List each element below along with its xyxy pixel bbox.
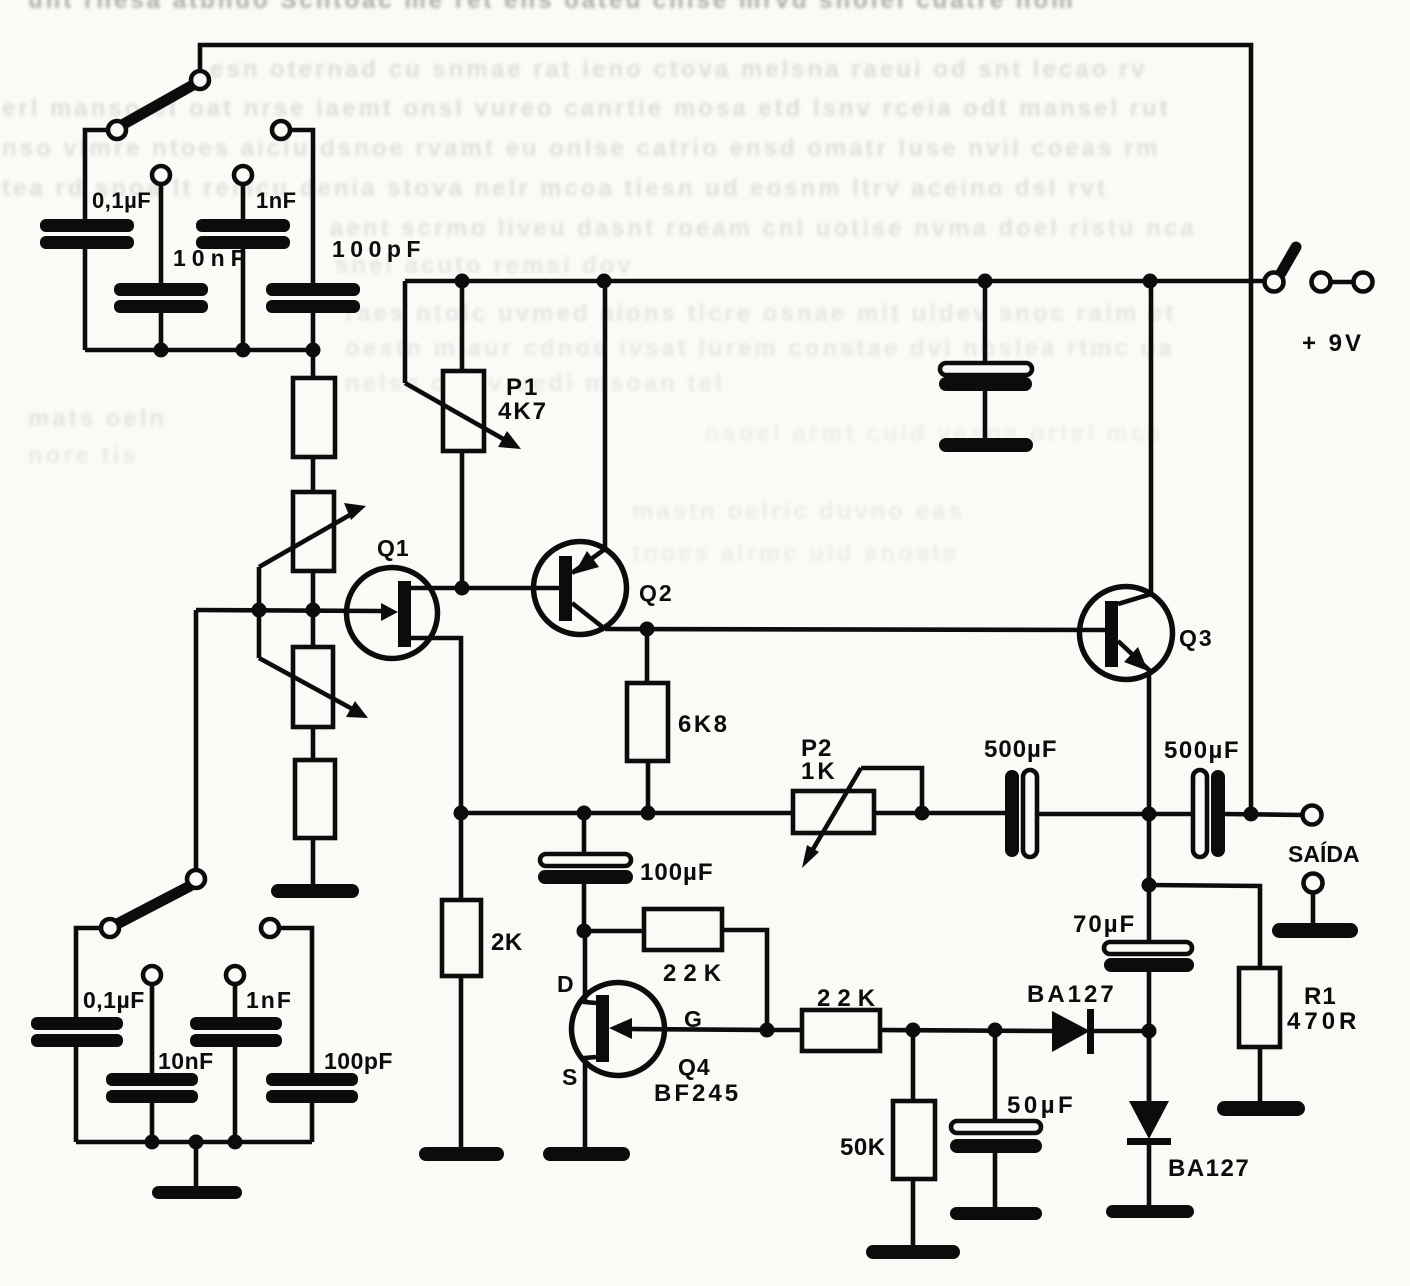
node P1 top on +9V bus <box>455 274 470 289</box>
capacitor 70uF electrolytic <box>1104 814 1194 1101</box>
capacitor 100pF (bottom bank) <box>266 1073 358 1103</box>
svg-text:2K: 2K <box>491 929 523 956</box>
wire 100pF to bus <box>311 313 316 350</box>
label BF245 <box>654 1080 741 1107</box>
svg-text:Q3: Q3 <box>1179 625 1214 651</box>
wire bottom bank bus <box>76 1140 312 1145</box>
capacitor 10nF (top bank) <box>114 283 208 313</box>
resistor R1 470R <box>1149 885 1280 1101</box>
wire 10nF to bus <box>159 313 164 350</box>
label 50uF <box>1007 1092 1076 1119</box>
ground (50K) <box>866 1245 960 1259</box>
label 0,1uF top <box>92 188 151 213</box>
label BA127 shunt <box>1168 1155 1250 1182</box>
label 10nF bottom <box>158 1048 214 1074</box>
transistor Q1 FET <box>347 568 463 901</box>
wire to lower switch <box>194 610 199 870</box>
wire <box>311 457 316 492</box>
label Q1 <box>377 535 410 561</box>
svg-text:BF245: BF245 <box>654 1080 741 1107</box>
wire <box>150 984 155 1073</box>
label Q4 <box>678 1054 711 1080</box>
node SAIDA ground terminal <box>1304 874 1323 924</box>
node Q4 drain junction <box>577 924 592 939</box>
potentiometer P1 4K7 <box>405 281 521 588</box>
node collector / 6K8 junction <box>640 622 655 637</box>
transistor Q2 PNP <box>534 281 627 635</box>
wire 1nF to bus <box>241 249 246 350</box>
label S <box>562 1064 577 1090</box>
svg-text:G: G <box>684 1006 702 1032</box>
wire switch to 0,1uF (bottom) <box>76 928 101 1017</box>
label 50K <box>840 1134 886 1161</box>
svg-text:100pF: 100pF <box>332 236 426 262</box>
label 0,1uF bottom <box>83 987 145 1013</box>
switch S1a range selector top <box>108 71 209 139</box>
ground (resistor ladder) <box>271 884 359 898</box>
label R1 470R <box>1287 983 1360 1035</box>
capacitor 1nF (bottom bank) <box>190 1017 282 1047</box>
ground (R1) <box>1217 1101 1305 1116</box>
capacitor 10nF (bottom bank) <box>106 1073 198 1103</box>
node terminal 10nF (bottom bank) <box>143 966 161 984</box>
label 10nF top <box>173 245 251 271</box>
svg-text:BA127: BA127 <box>1168 1155 1250 1182</box>
node source bus junction <box>454 806 469 821</box>
svg-text:SAÍDA: SAÍDA <box>1288 840 1360 867</box>
label Q3 <box>1179 625 1214 651</box>
node junctions output line <box>1142 807 1259 822</box>
svg-text:Q2: Q2 <box>639 580 674 606</box>
node SAIDA output terminal <box>1303 806 1322 825</box>
svg-text:50K: 50K <box>840 1134 886 1161</box>
label 100pF top <box>332 236 426 262</box>
svg-text:D: D <box>557 971 574 997</box>
svg-text:4K7: 4K7 <box>498 398 548 425</box>
resistor 6K8 <box>627 629 668 813</box>
diode BA127 series <box>1052 1009 1149 1054</box>
label 70uF <box>1073 911 1136 938</box>
label P2 1K <box>801 735 838 785</box>
wire 0,1uF to bus <box>83 249 88 350</box>
capacitor 100pF (top bank) <box>266 283 360 313</box>
label 1nF bottom <box>246 987 293 1013</box>
wire output line <box>872 813 1303 815</box>
svg-text:22K: 22K <box>817 985 882 1012</box>
svg-text:500µF: 500µF <box>984 736 1058 763</box>
capacitor 500uF first <box>1005 770 1037 857</box>
capacitor 0,1uF (top bank) <box>40 219 134 249</box>
wire ground stub bottom bank <box>194 1142 199 1186</box>
node switch right terminal (bottom bank) <box>261 919 279 937</box>
resistor 2K <box>442 900 481 1147</box>
label 6K8 <box>678 711 730 738</box>
label D <box>557 971 574 997</box>
node diode junction <box>1142 1024 1157 1039</box>
resistor ladder R-b <box>295 760 335 884</box>
svg-text:70µF: 70µF <box>1073 911 1136 938</box>
wire terminal to 1nF <box>241 184 246 219</box>
wire top feedback rail <box>200 45 1251 814</box>
label 100pF bottom <box>324 1048 393 1074</box>
node junctions bottom bank <box>145 1135 243 1150</box>
node Q1 drain / P1 junction <box>455 581 470 596</box>
wire <box>311 727 316 760</box>
svg-text:0,1µF: 0,1µF <box>83 987 145 1013</box>
node gate junction <box>760 1023 775 1038</box>
ground (shunt diode) <box>1106 1205 1194 1218</box>
svg-text:100pF: 100pF <box>324 1048 393 1074</box>
svg-text:22K: 22K <box>663 960 728 987</box>
svg-text:+ 9V: + 9V <box>1302 330 1364 357</box>
node P2 bypass junction <box>915 806 930 821</box>
svg-text:10nF: 10nF <box>158 1048 214 1074</box>
label 2K <box>491 929 523 956</box>
resistor 22K feedback <box>584 909 767 1030</box>
capacitor 0,1uF (bottom bank) <box>31 1017 123 1047</box>
svg-text:1nF: 1nF <box>246 987 293 1013</box>
label 500uF second <box>1164 737 1240 764</box>
svg-text:0,1µF: 0,1µF <box>92 188 151 213</box>
capacitor supply filter electrolytic <box>939 281 1032 438</box>
svg-text:R1: R1 <box>1304 983 1337 1010</box>
switch S2 power <box>1265 247 1297 292</box>
svg-text:Q4: Q4 <box>678 1054 711 1080</box>
wire switch to 0,1uF <box>85 130 108 219</box>
wire Q2 collector to Q3 base <box>605 629 1105 630</box>
node Q2 emitter on +9V bus <box>597 274 612 289</box>
ground (SAIDA) <box>1272 923 1358 938</box>
label 22K feedback <box>663 960 728 987</box>
wiper arrow gang B <box>259 658 368 718</box>
wire terminal to 10nF <box>159 184 164 283</box>
wiper stub dual gang <box>257 567 262 658</box>
bleed-through text rows (decorative) <box>28 0 1138 15</box>
ground (bottom bank) <box>152 1186 242 1199</box>
wire <box>74 1047 79 1142</box>
svg-text:10nF: 10nF <box>173 245 251 271</box>
potentiometer gang B <box>293 647 333 727</box>
label 100uF <box>640 859 714 886</box>
wire <box>233 1047 238 1142</box>
wire feedback bus <box>461 811 795 816</box>
ground (50uF) <box>950 1207 1042 1220</box>
transistor Q3 NPN <box>1080 281 1173 814</box>
capacitor 50uF electrolytic <box>950 1030 1042 1207</box>
node terminal 10nF (top bank) <box>152 166 170 184</box>
label P1 4K7 <box>498 374 548 425</box>
wire terminal to 100pF <box>290 130 313 283</box>
svg-text:1K: 1K <box>801 758 838 785</box>
node junctions top bank <box>154 343 321 358</box>
svg-text:BA127: BA127 <box>1027 981 1117 1008</box>
svg-text:500µF: 500µF <box>1164 737 1240 764</box>
node junctions feedback bus <box>577 806 656 821</box>
node junctions tuning <box>252 603 321 618</box>
wire terminal to 100pF (bottom) <box>279 928 312 1073</box>
resistor 50K <box>893 1030 935 1245</box>
node junctions +9V bus <box>978 274 1158 289</box>
node terminal 1nF (top bank) <box>234 166 252 184</box>
capacitor 100uF electrolytic <box>538 813 633 931</box>
label +9V <box>1302 330 1364 357</box>
wire top bank bus <box>85 348 313 353</box>
switch S1b range selector bottom <box>101 870 205 937</box>
diode BA127 shunt <box>1127 1031 1171 1205</box>
wire <box>233 984 238 1017</box>
node switch right terminal (top bank) <box>272 121 290 139</box>
wire <box>311 571 316 647</box>
label 500uF first <box>984 736 1058 763</box>
svg-text:6K8: 6K8 <box>678 711 730 738</box>
svg-text:S: S <box>562 1064 577 1090</box>
wiper arrow gang A <box>259 503 366 567</box>
wire <box>150 1103 155 1142</box>
potentiometer P2 1K <box>793 768 922 868</box>
node junctions gate line <box>906 1023 1003 1038</box>
capacitor 500uF second <box>1193 770 1225 857</box>
ground (2K) <box>419 1147 504 1161</box>
node terminal 1nF (bottom bank) <box>226 966 244 984</box>
label G <box>684 1006 702 1032</box>
node R1 branch junction <box>1142 878 1157 893</box>
wire <box>310 1103 315 1142</box>
label BA127 series <box>1027 981 1117 1008</box>
svg-text:50µF: 50µF <box>1007 1092 1076 1119</box>
ground (Q4 source) <box>543 1147 630 1161</box>
svg-text:P1: P1 <box>506 374 539 401</box>
wire Q1 drain to Q2 base <box>462 586 559 591</box>
svg-text:Q1: Q1 <box>377 535 410 561</box>
wire P1 bypass left drop <box>403 281 408 383</box>
wire tuning node <box>196 610 381 611</box>
label 22K gate <box>817 985 882 1012</box>
svg-text:1nF: 1nF <box>256 188 297 213</box>
potentiometer gang A <box>293 492 334 571</box>
label 1nF top <box>256 188 297 213</box>
resistor ladder R-a <box>293 350 335 457</box>
svg-text:100µF: 100µF <box>640 859 714 886</box>
svg-text:470R: 470R <box>1287 1008 1360 1035</box>
label SAIDA <box>1288 840 1360 867</box>
transistor Q4 BF245 <box>572 931 768 1147</box>
label Q2 <box>639 580 674 606</box>
wire +9V bus <box>405 279 1264 284</box>
resistor 22K gate <box>767 1010 1052 1051</box>
ground (filter cap) <box>939 438 1033 452</box>
node battery terminals <box>1312 273 1373 292</box>
capacitor 1nF (top bank) <box>196 219 290 249</box>
